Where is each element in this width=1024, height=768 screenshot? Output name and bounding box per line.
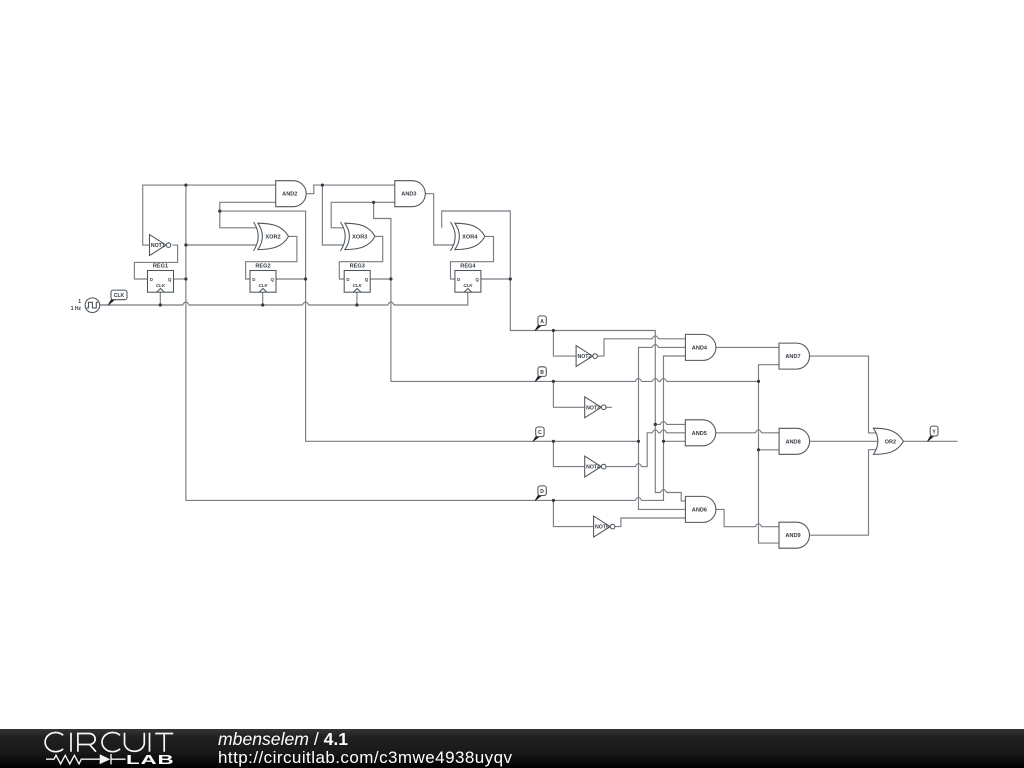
svg-text:Q: Q	[475, 277, 479, 282]
svg-text:AND3: AND3	[401, 192, 416, 198]
svg-text:AND4: AND4	[692, 345, 708, 351]
svg-text:NOT4: NOT4	[586, 465, 600, 471]
svg-text:AND2: AND2	[282, 192, 297, 198]
svg-text:REG2: REG2	[255, 263, 270, 269]
svg-text:REG3: REG3	[350, 263, 365, 269]
svg-text:NOT5: NOT5	[595, 525, 609, 531]
svg-text:D: D	[150, 277, 153, 282]
svg-text:CLK: CLK	[114, 293, 125, 299]
svg-text:CLK: CLK	[258, 283, 268, 288]
svg-text:NOT2: NOT2	[577, 354, 591, 360]
svg-text:D: D	[540, 489, 544, 495]
svg-text:AND6: AND6	[692, 507, 707, 513]
svg-text:NOT1: NOT1	[151, 243, 165, 249]
svg-text:REG4: REG4	[460, 263, 476, 269]
svg-text:CLK: CLK	[463, 283, 473, 288]
svg-text:Q: Q	[365, 277, 369, 282]
svg-text:CLK: CLK	[156, 283, 166, 288]
svg-text:Q: Q	[168, 277, 172, 282]
svg-text:1 Hz: 1 Hz	[71, 306, 82, 312]
svg-text:REG1: REG1	[153, 263, 168, 269]
svg-text:NOT3: NOT3	[586, 405, 600, 411]
svg-text:AND8: AND8	[785, 439, 800, 445]
svg-text:XOR2: XOR2	[265, 234, 280, 240]
svg-text:AND9: AND9	[785, 533, 800, 539]
svg-text:CLK: CLK	[353, 283, 363, 288]
svg-text:XOR3: XOR3	[352, 234, 367, 240]
svg-text:D: D	[346, 277, 349, 282]
svg-text:A: A	[540, 319, 544, 325]
svg-text:XOR4: XOR4	[462, 234, 478, 240]
svg-text:B: B	[540, 370, 544, 376]
svg-text:Q: Q	[270, 277, 274, 282]
svg-text:1: 1	[78, 299, 81, 305]
svg-text:OR2: OR2	[885, 439, 897, 445]
svg-text:D: D	[457, 277, 460, 282]
svg-text:D: D	[252, 277, 255, 282]
svg-text:AND7: AND7	[785, 354, 800, 360]
svg-text:C: C	[538, 430, 542, 436]
svg-text:AND5: AND5	[692, 431, 707, 437]
